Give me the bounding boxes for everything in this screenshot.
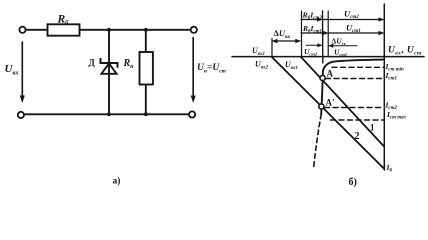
terminal top-left xyxy=(19,27,25,33)
wire Rn branch top xyxy=(145,30,147,52)
dashed line Ist max xyxy=(331,119,384,121)
dashed continuation of characteristic xyxy=(314,115,322,170)
dimension row 2 line RbIst1 xyxy=(301,32,327,34)
dimension row 2 line Ust1 xyxy=(328,32,383,34)
zener diode D: cathode bar with hooks xyxy=(101,59,118,67)
svg-text:А': А' xyxy=(326,98,335,108)
node dot top Rn branch xyxy=(144,28,148,32)
tick Uvx1 level xyxy=(301,11,303,57)
point A' xyxy=(319,104,324,109)
wire diode branch xyxy=(108,30,110,115)
dashed line Ist1 xyxy=(326,78,384,80)
svg-text:А: А xyxy=(327,69,334,79)
wire Rn branch bottom xyxy=(145,85,147,115)
tick Uvx2 level xyxy=(271,39,273,57)
terminal bottom-right xyxy=(189,111,195,117)
dashed line Ist2 xyxy=(325,107,384,109)
resistor Rn box xyxy=(140,52,153,85)
terminal bottom-left xyxy=(18,112,24,118)
wire resistor to node1 xyxy=(80,29,191,31)
svg-text:Д: Д xyxy=(89,58,96,68)
tick Ust1 level xyxy=(327,11,329,57)
load line 2 xyxy=(272,57,384,168)
vertical tick above knee (Ust2 level) xyxy=(322,11,324,63)
svg-text:2: 2 xyxy=(355,131,360,142)
resistor R_b box xyxy=(48,24,80,35)
dimension row 1 line RbIst2 xyxy=(301,19,322,21)
node dot bottom diode branch xyxy=(107,112,111,116)
zener diode D: anode triangle xyxy=(101,63,116,73)
svg-text:1: 1 xyxy=(370,123,375,133)
I axis (vertical) xyxy=(383,4,385,170)
node dot bottom Rn branch xyxy=(144,112,148,116)
terminal top-right xyxy=(191,27,197,33)
dashed line Ist min xyxy=(332,66,384,68)
output voltage arrow Un xyxy=(192,38,194,98)
load line 1 xyxy=(301,57,384,146)
dimension row 1 line Ust2 xyxy=(323,19,383,21)
point A xyxy=(320,75,325,80)
bottom wire xyxy=(24,113,189,115)
wire top-left to resistor xyxy=(26,29,48,31)
input voltage arrow Uvx xyxy=(21,42,23,97)
node dot top diode branch xyxy=(107,28,111,32)
zener characteristic flat part and knee xyxy=(321,60,384,115)
U axis (horizontal) xyxy=(232,56,424,58)
svg-text:б): б) xyxy=(349,177,357,188)
svg-text:а): а) xyxy=(113,176,121,187)
